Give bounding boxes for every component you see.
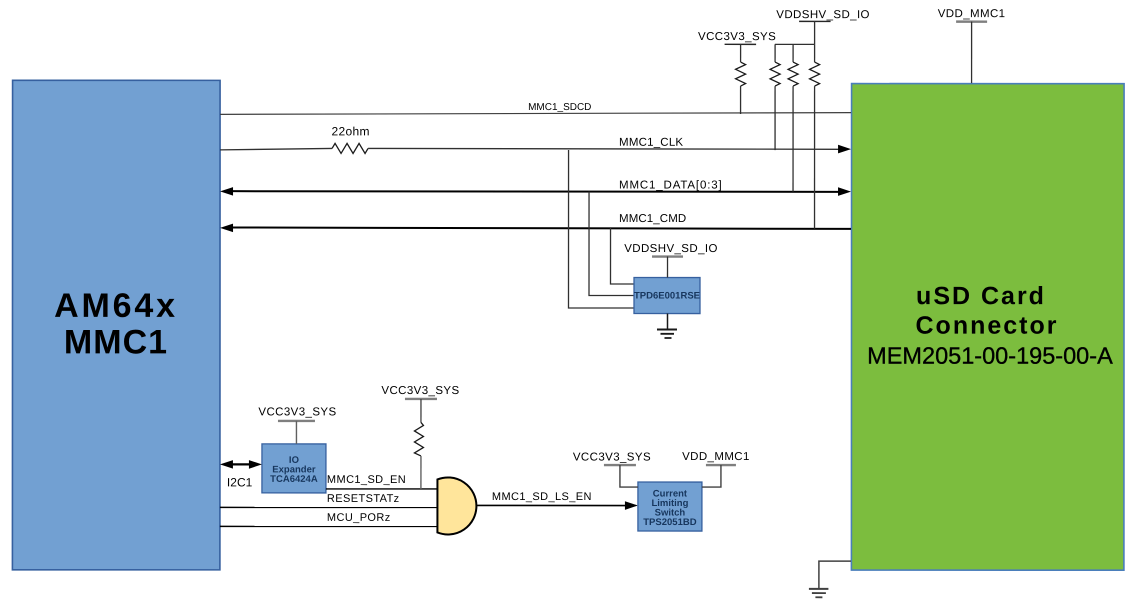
svg-text:TCA6424A: TCA6424A [270,474,318,485]
svg-text:MMC1_SDCD: MMC1_SDCD [528,102,591,113]
svg-text:TPS2051BD: TPS2051BD [643,517,696,528]
svg-text:VCC3V3_SYS: VCC3V3_SYS [698,31,776,43]
svg-text:AM64x: AM64x [54,287,178,325]
svg-text:VCC3V3_SYS: VCC3V3_SYS [381,385,459,397]
svg-text:MMC1_CMD: MMC1_CMD [619,213,686,225]
svg-text:MMC1_DATA[0:3]: MMC1_DATA[0:3] [619,180,723,192]
svg-text:MMC1_CLK: MMC1_CLK [619,137,683,149]
svg-text:VDDSHV_SD_IO: VDDSHV_SD_IO [624,243,718,255]
svg-text:TPD6E001RSE: TPD6E001RSE [634,291,700,302]
svg-text:VDD_MMC1: VDD_MMC1 [682,451,750,463]
svg-text:VCC3V3_SYS: VCC3V3_SYS [258,406,336,418]
svg-text:VCC3V3_SYS: VCC3V3_SYS [573,452,651,464]
svg-text:uSD Card: uSD Card [916,282,1046,310]
svg-text:Connector: Connector [915,312,1058,340]
svg-text:MEM2051-00-195-00-A: MEM2051-00-195-00-A [867,343,1113,369]
svg-text:I2C1: I2C1 [227,475,253,489]
svg-text:MMC1: MMC1 [64,323,168,361]
svg-text:RESETSTATz: RESETSTATz [327,493,400,505]
svg-text:MMC1_SD_LS_EN: MMC1_SD_LS_EN [492,491,592,503]
svg-text:22ohm: 22ohm [332,124,370,138]
svg-text:MCU_PORz: MCU_PORz [327,512,391,524]
svg-text:VDDSHV_SD_IO: VDDSHV_SD_IO [776,9,870,21]
svg-text:VDD_MMC1: VDD_MMC1 [938,8,1006,20]
svg-text:MMC1_SD_EN: MMC1_SD_EN [327,474,406,486]
